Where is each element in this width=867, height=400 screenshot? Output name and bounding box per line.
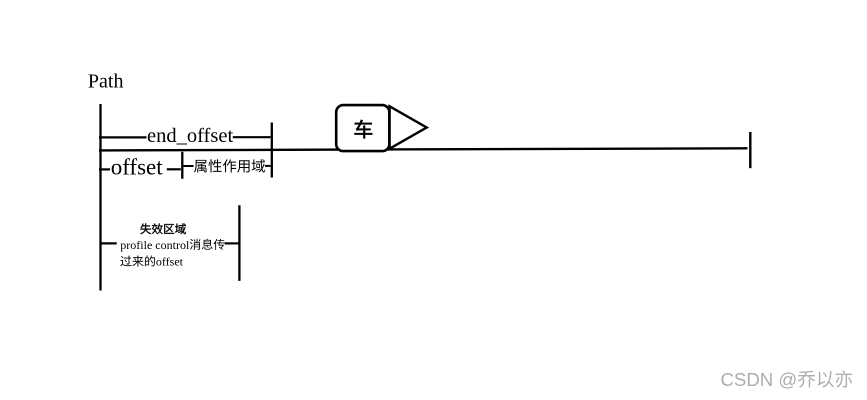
failure region dimension line right dash bbox=[225, 242, 240, 244]
watermark 乔以亦 bbox=[798, 370, 852, 387]
attribute scope dimension line right dash bbox=[265, 165, 271, 167]
svg-text:end_offset: end_offset bbox=[147, 125, 233, 147]
tick at failure region right boundary bbox=[238, 205, 240, 281]
main path line bbox=[99, 148, 748, 150]
end tick at path right end bbox=[749, 132, 751, 168]
svg-text:profile control: profile control bbox=[120, 238, 190, 252]
tick at end_offset boundary bbox=[271, 123, 273, 178]
label 消息传 (message pass) bbox=[190, 239, 225, 250]
failure region dimension line left dash bbox=[100, 242, 117, 244]
car box bbox=[336, 105, 389, 151]
car direction triangle bbox=[390, 106, 427, 148]
svg-text:offset: offset bbox=[111, 154, 164, 179]
label 属性作用域 (attribute scope) bbox=[194, 159, 265, 172]
label 车 (car) bbox=[355, 120, 373, 139]
offset dimension line right dash bbox=[167, 168, 181, 170]
svg-text:CSDN @: CSDN @ bbox=[721, 369, 798, 390]
tick between offset and attribute scope bbox=[181, 152, 183, 179]
svg-text:offset: offset bbox=[156, 255, 184, 269]
end_offset dimension line left segment bbox=[99, 136, 147, 138]
svg-text:Path: Path bbox=[88, 71, 124, 93]
attribute scope dimension line left dash bbox=[183, 165, 193, 167]
offset dimension line left dash bbox=[99, 168, 110, 170]
left boundary vertical line (path start) bbox=[99, 104, 101, 291]
label 失效区域 (failure region) bbox=[140, 223, 185, 234]
label 过来的 (passed-over) bbox=[120, 255, 155, 266]
end_offset dimension line right segment bbox=[233, 136, 271, 138]
